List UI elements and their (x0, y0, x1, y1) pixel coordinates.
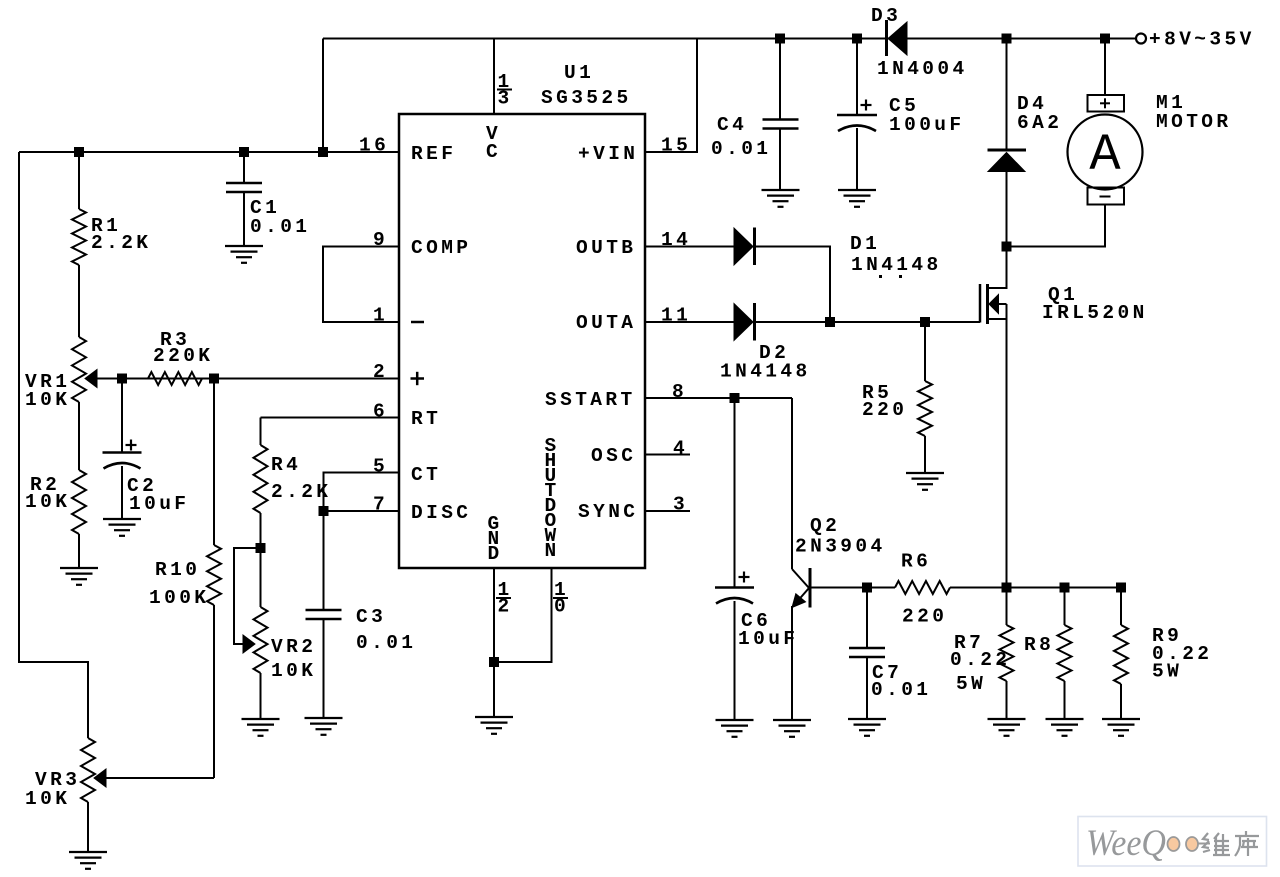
watermark 维 glyph (1203, 833, 1230, 855)
pin label GND (487, 513, 502, 565)
node junction rail/R7 (1002, 583, 1012, 593)
transistor Q1 gate bar (979, 284, 982, 323)
node junction REF/R1 (74, 147, 84, 157)
label R3 (153, 329, 213, 367)
wire D1 to OUTA node (755, 247, 830, 323)
label C5 (889, 95, 965, 136)
svg-text:9: 9 (373, 229, 388, 251)
motor M1 A symbol (1089, 126, 1121, 185)
resistor R4 (254, 445, 268, 513)
pin number 11 (661, 305, 691, 327)
svg-text:DISC: DISC (411, 502, 471, 524)
transistor Q2 base bar (809, 568, 812, 608)
capacitor C4 top lead (779, 39, 781, 120)
node junction R3/R10 (209, 374, 219, 384)
label C6 (738, 610, 798, 650)
node junction SSTART/C6 (730, 393, 740, 403)
svg-text:220: 220 (902, 606, 947, 628)
resistor R3 (148, 372, 202, 385)
capacitor C2 (103, 453, 142, 469)
wire C7 bottom lead (866, 657, 868, 719)
svg-text:+VIN: +VIN (578, 143, 638, 165)
node junction rail/R9 (1116, 583, 1126, 593)
resistor R5 top lead (924, 322, 926, 381)
pin label OSC (591, 445, 636, 467)
pin label COMP (411, 237, 471, 259)
svg-text:7: 7 (373, 494, 388, 516)
svg-text:10K: 10K (271, 660, 316, 682)
resistor R2 (72, 470, 86, 534)
label C2 (127, 475, 189, 515)
label U1 (541, 62, 632, 109)
svg-text:VR2: VR2 (271, 636, 316, 658)
pin label REF (411, 143, 456, 165)
pin label OUTA (576, 312, 636, 334)
transistor Q1 channel bar (986, 284, 989, 324)
label R8 (1024, 634, 1054, 656)
wire pin 15 jog to top rail (645, 39, 697, 153)
svg-text:0.01: 0.01 (356, 632, 416, 654)
terminal +8V supply (1136, 34, 1146, 44)
polarity + C6 (739, 572, 750, 583)
wire VR3 bottom lead (87, 802, 89, 852)
capacitor C5 top lead (856, 39, 858, 116)
wire VC pin 13 drop to IC top (493, 39, 495, 115)
wire M1 top lead (1104, 39, 1106, 96)
wire Q1 source down (1006, 304, 1008, 588)
pin label SHUTDOWN (544, 435, 559, 562)
svg-text:RT: RT (411, 408, 441, 430)
ground R2 (60, 568, 98, 585)
svg-text:R4: R4 (271, 454, 301, 476)
wire R8 bottom lead (1064, 681, 1066, 719)
node junction rail/D4 (1002, 34, 1012, 44)
svg-text:100K: 100K (149, 587, 209, 609)
wiper arrow VR3 (94, 769, 106, 787)
node junction pin12/pin10 (489, 657, 499, 667)
label VR3 (25, 769, 80, 810)
label C4 (711, 114, 771, 160)
svg-text:6: 6 (373, 401, 388, 423)
wire C6 bottom lead (734, 601, 736, 720)
label C1 (250, 197, 310, 238)
wire pin 6 RT (261, 417, 400, 419)
label Q2 (795, 515, 886, 558)
diode D4 top lead (1006, 39, 1008, 151)
label R5 (862, 382, 907, 421)
svg-text:0.01: 0.01 (711, 138, 771, 160)
svg-text:R10: R10 (155, 559, 200, 581)
svg-text:IRL520N: IRL520N (1042, 302, 1148, 324)
node junction DISC/C3 (319, 506, 329, 516)
ground R5 (906, 473, 944, 490)
node junction base/C7 (862, 583, 872, 593)
label +8V~35V (1149, 29, 1255, 51)
svg-text:R8: R8 (1024, 634, 1054, 656)
svg-text:1N4148: 1N4148 (720, 361, 811, 383)
resistor R9 top lead (1120, 588, 1122, 626)
op-amp U1 SG3525 body (399, 114, 645, 568)
wire pin 14 OUTB (645, 246, 734, 248)
wire Q2 base lead (811, 587, 867, 589)
wire Q2 emitter down (791, 606, 793, 720)
diode D1 (734, 228, 755, 266)
node junction REF/C1 (239, 147, 249, 157)
ground C2 (103, 519, 141, 536)
wiper arrow VR1 (85, 370, 97, 388)
capacitor C7 top lead (866, 588, 868, 649)
watermark 库 glyph (1235, 831, 1259, 856)
wire C3 bottom lead (323, 619, 325, 718)
ground R7 (988, 719, 1026, 736)
capacitor C6 (715, 588, 754, 604)
capacitor C3 top lead (323, 511, 325, 610)
wire M1 bottom to D4 (1007, 205, 1106, 247)
label C7 (871, 662, 931, 701)
capacitor C4 (763, 120, 799, 129)
ground C4 (762, 190, 800, 207)
wire R2 bottom lead (78, 534, 80, 568)
pin number 15 (661, 135, 691, 157)
resistor R8 top lead (1064, 588, 1066, 626)
svg-text:10K: 10K (25, 389, 70, 411)
pin label VC (486, 123, 501, 163)
node junction R4/VR2 (256, 543, 266, 553)
ground VR2 (242, 719, 280, 736)
svg-text:3: 3 (673, 494, 688, 516)
wire R4 bottom lead (260, 513, 262, 548)
wire R1 to VR1 (78, 265, 80, 337)
transistor Q1 source lead (988, 318, 1007, 320)
svg-text:5W: 5W (1152, 661, 1182, 683)
svg-text:OSC: OSC (591, 445, 636, 467)
wire R1 top lead (78, 152, 80, 209)
pin number 12 (496, 579, 513, 618)
wire VR1 wiper to pin 2 (96, 378, 399, 380)
transistor Q1 drain lead (988, 247, 1007, 289)
svg-text:220: 220 (862, 399, 907, 421)
wire pin 3 SYNC stub (645, 510, 690, 512)
pin number 1 (373, 305, 388, 327)
wire pin 4 OSC stub (645, 454, 690, 456)
svg-text:N: N (544, 540, 559, 562)
wire VR3 wiper to R10 (105, 777, 214, 779)
pin number 4 (673, 438, 688, 460)
wire pin 5 CT (324, 473, 400, 512)
label R2 (25, 474, 70, 513)
resistor R10 (207, 545, 221, 605)
svg-text:15: 15 (661, 135, 691, 157)
potentiometer VR2 top lead (260, 548, 262, 607)
wire pin 11 OUTA (645, 321, 734, 323)
resistor R9 (1114, 625, 1128, 684)
stray dots D1 (879, 275, 902, 278)
transistor Q2 collector diagonal (792, 569, 809, 588)
node junction wiper/C2 (117, 374, 127, 384)
svg-text:4: 4 (673, 438, 688, 460)
svg-text:A: A (1089, 126, 1121, 185)
resistor R5 (918, 381, 932, 436)
svg-text:SG3525: SG3525 (541, 87, 632, 109)
svg-text:1N4004: 1N4004 (877, 58, 968, 80)
svg-text:SSTART: SSTART (545, 389, 636, 411)
pin number 8 (672, 381, 687, 403)
wire R10 top lead (213, 379, 215, 546)
pin label SYNC (578, 501, 638, 523)
svg-text:OUTA: OUTA (576, 312, 636, 334)
svg-text:MOTOR: MOTOR (1156, 111, 1232, 133)
pin number 13 (497, 71, 513, 110)
resistor R6 left lead (867, 587, 895, 589)
wire C4 bottom lead (779, 128, 781, 190)
svg-text:14: 14 (661, 229, 691, 251)
svg-text:16: 16 (359, 135, 389, 157)
pin number 10 (553, 579, 569, 618)
capacitor C6 top lead (734, 398, 736, 588)
wire RT drop to R4 (260, 418, 262, 446)
svg-text:C: C (486, 141, 501, 163)
pin number 6 (373, 401, 388, 423)
svg-text:REF: REF (411, 143, 456, 165)
pin label CT (411, 464, 441, 486)
motor M1 + terminal (1088, 95, 1125, 112)
pin label OUTB (576, 237, 636, 259)
svg-text:6A2: 6A2 (1017, 112, 1062, 134)
svg-text:0.01: 0.01 (250, 216, 310, 238)
label VR2 (271, 636, 316, 682)
wire REF rail pin 16 (19, 151, 399, 153)
watermark WeeQoo box (1078, 817, 1267, 867)
svg-text:U1: U1 (564, 62, 594, 84)
capacitor C1 top lead (243, 152, 245, 183)
wire C1 bottom lead (243, 192, 245, 246)
svg-text:C3: C3 (356, 606, 386, 628)
label D3 (871, 5, 968, 80)
label R10 (149, 559, 209, 609)
wire top +V rail (323, 38, 1135, 40)
svg-text:2: 2 (373, 361, 388, 383)
wire R9 bottom lead (1120, 684, 1122, 719)
svg-text:11: 11 (661, 305, 691, 327)
wire pin 12 GND drop (493, 568, 495, 662)
node junction D4/M1/Q1 drain (1002, 242, 1012, 252)
pin number 16 (359, 135, 389, 157)
capacitor C3 (306, 610, 342, 619)
ground R8 (1046, 719, 1084, 736)
wire D4 bottom lead (1006, 171, 1008, 247)
ground C5 (838, 190, 876, 207)
wire R6 to sense rail (950, 587, 1121, 589)
resistor R1 (72, 209, 86, 265)
svg-text:2.2K: 2.2K (91, 232, 151, 254)
ground C3 (305, 718, 343, 735)
pin number 9 (373, 229, 388, 251)
wire VR2 bottom lead (260, 673, 262, 719)
diode D4 (988, 150, 1027, 172)
wire IC ground lead (493, 662, 495, 717)
potentiometer VR2 (254, 607, 268, 673)
diode D3 (887, 20, 908, 56)
svg-text:5W: 5W (956, 673, 986, 695)
ground C1 (225, 246, 263, 263)
svg-text:1: 1 (373, 305, 388, 327)
wire pin 8 SSTART (645, 397, 792, 399)
transistor Q1 body arrow (989, 295, 1007, 314)
node junction REF/VC drop (318, 147, 328, 157)
label VR1 (25, 371, 70, 411)
pin number 7 (373, 494, 388, 516)
svg-text:100uF: 100uF (889, 114, 965, 136)
resistor R7 (1000, 625, 1014, 681)
svg-text:WeeQ: WeeQ (1086, 823, 1166, 864)
wire pin 7 DISC (324, 510, 400, 512)
svg-text:C4: C4 (717, 114, 747, 136)
diode D2 (734, 303, 755, 341)
label R4 (271, 454, 331, 503)
svg-text:0: 0 (554, 596, 569, 618)
ground IC (475, 717, 513, 734)
svg-text:220K: 220K (153, 345, 213, 367)
svg-text:2N3904: 2N3904 (795, 536, 886, 558)
svg-text:CT: CT (411, 464, 441, 486)
pin label +VIN (578, 143, 638, 165)
svg-text:10uF: 10uF (738, 628, 798, 650)
pin number 5 (373, 456, 388, 478)
svg-text:10uF: 10uF (129, 493, 189, 515)
motor M1 - terminal (1088, 188, 1125, 205)
pin number 14 (661, 229, 691, 251)
label D4 (1017, 93, 1062, 134)
label R6 (901, 551, 947, 628)
label C3 (356, 606, 416, 654)
svg-text:2.2K: 2.2K (271, 481, 331, 503)
svg-text:SYNC: SYNC (578, 501, 638, 523)
svg-text:COMP: COMP (411, 237, 471, 259)
capacitor C5 (837, 115, 877, 131)
ground Q2 (773, 720, 811, 737)
wire R7 bottom lead (1006, 681, 1008, 719)
svg-text:D3: D3 (871, 5, 901, 27)
pin label SSTART (545, 389, 636, 411)
label R7 (950, 632, 1010, 695)
svg-text:OUTB: OUTB (576, 237, 636, 259)
pin label plus (411, 372, 425, 385)
svg-text:R6: R6 (901, 551, 931, 573)
pin label minus (411, 321, 424, 324)
svg-text:Q2: Q2 (810, 515, 840, 537)
svg-text:1N4148: 1N4148 (851, 254, 942, 276)
node junction rail/R8 (1060, 583, 1070, 593)
resistor R8 (1058, 625, 1072, 681)
svg-text:0.22: 0.22 (950, 649, 1010, 671)
wire C2 bottom lead (121, 466, 123, 519)
capacitor C7 (849, 648, 885, 657)
node junction rail/C5 (852, 34, 862, 44)
resistor R6 (895, 581, 950, 594)
svg-text:10K: 10K (25, 491, 70, 513)
ground C6 (716, 720, 754, 737)
wire R5 bottom lead (924, 436, 926, 473)
resistor R7 top lead (1006, 588, 1008, 626)
ground C7 (848, 719, 886, 736)
svg-text:2: 2 (497, 596, 512, 618)
svg-text:5: 5 (373, 456, 388, 478)
wire Q2 collector drop (791, 398, 793, 569)
pin number 2 (373, 361, 388, 383)
wiper arrow VR2 (243, 635, 255, 653)
wire VR1 to R2 (78, 402, 80, 470)
svg-text:0.01: 0.01 (871, 679, 931, 701)
capacitor C2 top lead (121, 379, 123, 453)
label M1 (1156, 92, 1232, 133)
wire R10 bottom lead (213, 605, 215, 778)
pin label DISC (411, 502, 471, 524)
potentiometer VR1 (72, 337, 86, 402)
capacitor C1 (226, 183, 262, 192)
pin number 3 (673, 494, 688, 516)
ground VR3 (69, 852, 107, 869)
transistor Q2 emitter diagonal (792, 588, 809, 608)
svg-text:D1: D1 (850, 233, 880, 255)
polarity + C2 (126, 440, 137, 451)
node junction rail/M1 (1100, 34, 1110, 44)
node junction D1/D2 (825, 317, 835, 327)
polarity + C5 (861, 100, 872, 111)
node junction rail/C4 (775, 34, 785, 44)
svg-text:D: D (487, 543, 502, 565)
wire top rail left drop to REF node (322, 39, 324, 153)
node junction gate/R5 (920, 317, 930, 327)
pin label RT (411, 408, 441, 430)
label R9 (1152, 625, 1212, 683)
wire VR2 rheostat loop (234, 548, 261, 644)
ground R9 (1102, 719, 1140, 736)
label D1 (850, 233, 942, 276)
label R1 (91, 215, 151, 254)
svg-text:10K: 10K (25, 788, 70, 810)
motor M1 body (1068, 115, 1143, 190)
wire left rail down (19, 152, 88, 738)
wire pin 9 COMP (323, 247, 399, 323)
svg-text:8: 8 (672, 381, 687, 403)
svg-text:+8V~35V: +8V~35V (1149, 29, 1255, 51)
potentiometer VR3 (81, 738, 95, 802)
svg-text:3: 3 (497, 88, 512, 110)
label Q1 (1042, 284, 1148, 324)
label D2 (720, 342, 811, 383)
wire pin 10 SHUTDOWN drop (494, 568, 552, 662)
wire C5 bottom lead (856, 128, 858, 190)
wire D2 to gate (755, 321, 980, 323)
